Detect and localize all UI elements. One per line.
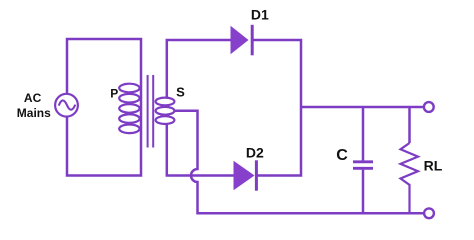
svg-text:RL: RL xyxy=(424,157,443,173)
svg-text:Mains: Mains xyxy=(17,106,51,120)
svg-text:AC: AC xyxy=(24,91,42,105)
svg-text:D1: D1 xyxy=(251,7,269,23)
svg-text:C: C xyxy=(336,147,348,164)
svg-text:D2: D2 xyxy=(246,145,264,161)
svg-text:P: P xyxy=(110,87,118,101)
svg-text:S: S xyxy=(176,84,185,99)
